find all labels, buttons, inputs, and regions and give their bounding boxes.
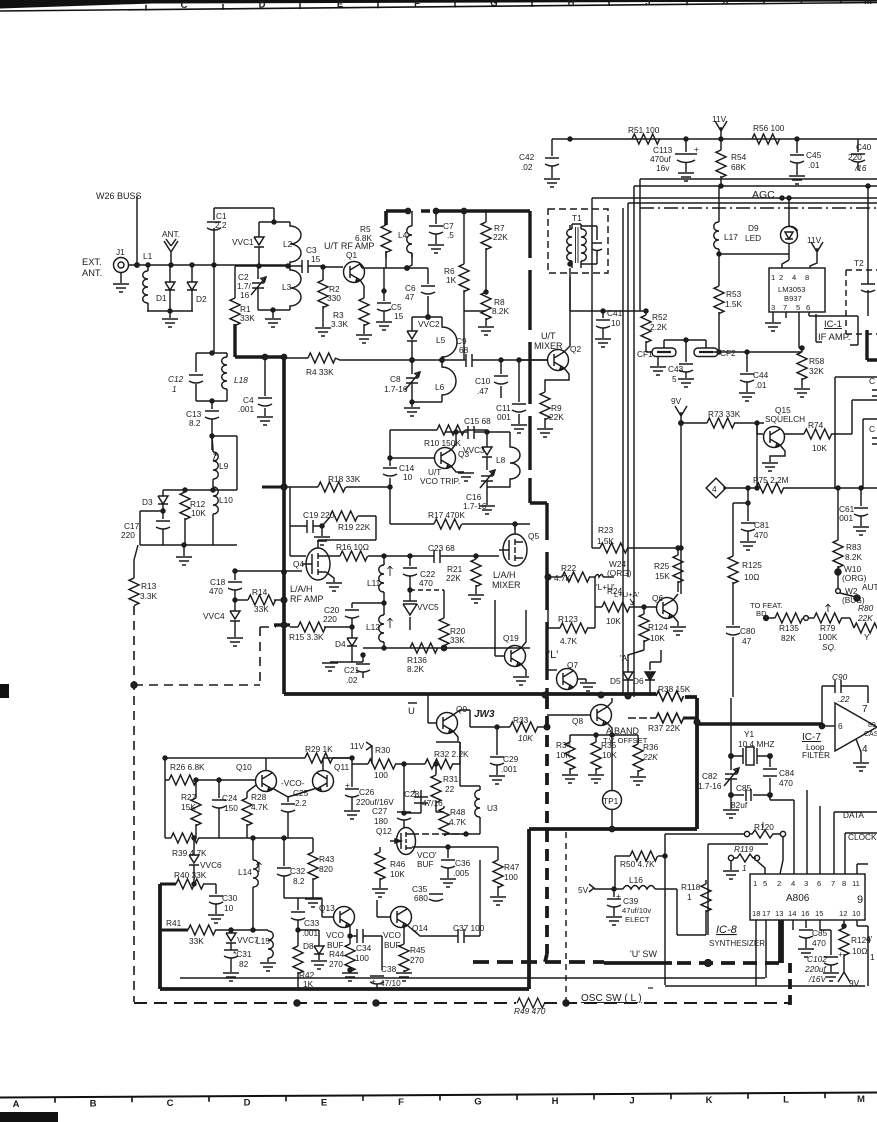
svg-text:A: A (13, 1099, 20, 1110)
svg-text:C12: C12 (168, 374, 184, 384)
svg-text:22K: 22K (642, 752, 658, 762)
svg-text:SQ.: SQ. (822, 642, 836, 652)
svg-text:4.7K: 4.7K (560, 636, 578, 646)
svg-text:C34: C34 (356, 943, 372, 953)
svg-text:R49 470: R49 470 (514, 1006, 546, 1016)
svg-text:D3: D3 (142, 497, 153, 507)
svg-text:33K: 33K (240, 313, 255, 323)
resistor R42 (299, 970, 315, 989)
svg-text:R47: R47 (504, 862, 520, 872)
svg-text:LM3053: LM3053 (778, 285, 805, 294)
svg-text:270: 270 (410, 955, 424, 965)
svg-text:220: 220 (121, 530, 135, 540)
ground C61 (853, 527, 869, 535)
label L/A/H RF AMP (290, 584, 324, 604)
top ruler band (0, 0, 152, 9)
svg-text:H: H (568, 0, 575, 9)
ground R3 (356, 335, 372, 343)
svg-text:BUF: BUF (384, 940, 401, 950)
wire synth bus vertical (665, 834, 744, 985)
svg-text:47: 47 (405, 292, 415, 302)
svg-text:10K: 10K (650, 633, 665, 643)
thick band bus (160, 694, 697, 989)
resistor R31 (443, 774, 459, 794)
svg-text:M: M (864, 0, 872, 7)
ground C81 (740, 542, 756, 550)
svg-text:C30: C30 (222, 893, 238, 903)
svg-text:8: 8 (805, 273, 809, 282)
svg-text:470: 470 (812, 938, 826, 948)
svg-text:B: B (90, 1099, 97, 1110)
svg-text:JW3: JW3 (474, 709, 495, 720)
resistor R80 (857, 603, 874, 623)
svg-text:R32 2.2K: R32 2.2K (434, 749, 469, 759)
svg-text:+: + (412, 786, 417, 796)
svg-text:R124: R124 (648, 622, 668, 632)
capacitor C3 (306, 245, 321, 264)
ground C16 (479, 506, 495, 514)
jumper W10 (842, 564, 867, 583)
capacitor C22 (419, 569, 436, 588)
svg-text:22: 22 (445, 784, 455, 794)
capacitor C10 (475, 376, 491, 396)
svg-text:1: 1 (753, 879, 757, 888)
svg-text:R58: R58 (809, 356, 825, 366)
svg-text:10K: 10K (812, 443, 827, 453)
svg-text:LED: LED (745, 233, 761, 243)
svg-text:R52: R52 (652, 312, 668, 322)
resistor R58 (809, 356, 825, 376)
svg-text:EXT.: EXT. (82, 257, 102, 267)
resistor R35 (601, 740, 617, 760)
svg-text:D4: D4 (335, 639, 346, 649)
capacitor C40 (848, 142, 872, 173)
resistor R54 (731, 152, 747, 172)
capacitor C42 (519, 152, 535, 172)
svg-text:L9: L9 (219, 461, 229, 471)
resistor R14 (252, 587, 269, 614)
svg-text:R43: R43 (319, 854, 335, 864)
wire Q19 collector (521, 610, 526, 648)
svg-text:L10: L10 (219, 495, 233, 505)
capacitor C35 (412, 884, 428, 903)
svg-text:R16 10Ω: R16 10Ω (336, 542, 369, 552)
capacitor C21 (344, 665, 360, 685)
IC A806 (750, 874, 865, 920)
svg-text:10K: 10K (518, 733, 533, 743)
svg-text:15K: 15K (655, 571, 670, 581)
svg-text:.02: .02 (346, 675, 358, 685)
ground C113 (678, 173, 694, 181)
svg-text:.001: .001 (837, 513, 854, 523)
svg-text:.001: .001 (238, 404, 255, 414)
svg-text:'L': 'L' (548, 649, 558, 661)
svg-text:10.4 MHZ: 10.4 MHZ (738, 739, 774, 749)
wire 9V bus down (680, 548, 682, 594)
wire IF bus verticals (622, 208, 624, 694)
svg-text:MIXER: MIXER (492, 580, 521, 590)
svg-text:680: 680 (414, 893, 428, 903)
jumper W24 (607, 559, 632, 578)
thick bus vertical x284 (282, 357, 286, 694)
wire antenna bus (129, 264, 290, 266)
svg-text:5: 5 (763, 879, 767, 888)
svg-text:Q2: Q2 (570, 344, 581, 354)
wire T1 secondary down (570, 268, 646, 311)
svg-text:4: 4 (862, 744, 868, 755)
svg-text:R83: R83 (846, 542, 862, 552)
svg-text:Y1: Y1 (744, 729, 755, 739)
capacitor C20 (323, 605, 340, 624)
svg-text:8.2: 8.2 (189, 418, 201, 428)
svg-text:D5: D5 (610, 676, 621, 686)
corner registration block (0, 1112, 58, 1122)
wire Q9 emitter (453, 731, 458, 741)
wire Q3 collector (451, 432, 456, 450)
svg-text:1: 1 (687, 892, 692, 902)
svg-text:15: 15 (394, 311, 404, 321)
svg-text:8.2K: 8.2K (845, 552, 863, 562)
resistor R5 (355, 224, 373, 243)
svg-text:10: 10 (403, 472, 413, 482)
svg-text:3: 3 (771, 303, 775, 312)
svg-text:ANT.: ANT. (82, 268, 102, 278)
ground C7 (428, 245, 444, 253)
left edge mark (0, 684, 9, 698)
svg-text:CAS: CAS (864, 731, 877, 738)
wire tank bottom rail (412, 402, 442, 407)
capacitor C9 (456, 336, 469, 355)
svg-text:R135: R135 (779, 623, 799, 633)
resistor R24 (606, 586, 623, 626)
svg-text:L/A/H: L/A/H (290, 584, 313, 594)
thick stub to bus (274, 623, 290, 626)
svg-text:8.2: 8.2 (293, 876, 305, 886)
capacitor C31 (233, 949, 252, 969)
svg-text:11V: 11V (712, 114, 727, 124)
svg-text:Q12: Q12 (376, 826, 392, 836)
svg-text:R119: R119 (734, 844, 754, 854)
svg-text:J: J (645, 0, 650, 8)
svg-text:470: 470 (754, 530, 768, 540)
ground C5 (376, 322, 392, 330)
svg-text:6: 6 (806, 303, 810, 312)
resistor R25 (654, 561, 670, 581)
thick top rail (386, 211, 530, 225)
svg-text:C: C (181, 0, 188, 11)
wire D3 left to R13 (134, 511, 163, 578)
svg-text:10: 10 (224, 903, 234, 913)
wire pin3 (806, 790, 808, 874)
svg-text:L6: L6 (435, 382, 445, 392)
svg-text:7: 7 (862, 704, 868, 715)
capacitor C27 (372, 806, 388, 826)
capacitor T1 tuning (581, 226, 597, 264)
IC-8 box partial (708, 844, 768, 935)
wire Q5 drain (514, 524, 516, 534)
resistor R47 (504, 862, 520, 882)
resistor R12 (190, 499, 206, 518)
svg-text:RF AMP: RF AMP (290, 594, 324, 604)
svg-text:R40 33K: R40 33K (174, 870, 207, 880)
svg-text:R80: R80 (858, 603, 874, 613)
svg-text:180: 180 (374, 816, 388, 826)
capacitor C11 (496, 403, 511, 422)
capacitor C8 variable (384, 374, 408, 394)
svg-text:TP1: TP1 (603, 796, 619, 806)
svg-text:L/A/H: L/A/H (493, 570, 516, 580)
svg-text:15: 15 (815, 909, 823, 918)
wire Q4 gate1 (235, 570, 302, 572)
svg-text:FILTER: FILTER (802, 750, 830, 760)
dashed boundary left (134, 606, 276, 1002)
svg-text:'A': 'A' (620, 653, 629, 663)
svg-text:VVC1: VVC1 (232, 237, 254, 247)
svg-text:L: L (783, 1095, 789, 1106)
svg-text:ANT.: ANT. (162, 229, 180, 239)
svg-text:Q6: Q6 (652, 593, 663, 603)
svg-text:8.2K: 8.2K (492, 306, 510, 316)
resistor R6 (444, 266, 457, 285)
svg-text:9: 9 (857, 894, 863, 906)
svg-text:8.2K: 8.2K (407, 664, 425, 674)
svg-text:820: 820 (319, 864, 333, 874)
capacitor C36 (453, 858, 471, 878)
svg-text:L16: L16 (629, 875, 643, 885)
svg-text:1.7-16: 1.7-16 (384, 384, 408, 394)
wire Q2 emitter to R9 (545, 368, 569, 392)
ground Q4 (326, 572, 334, 582)
wire VCO emitters (272, 788, 317, 800)
resistor R44 (329, 949, 345, 969)
svg-text:4: 4 (791, 879, 795, 888)
label U/T VCO TRIP. (420, 467, 460, 486)
svg-text:10K: 10K (606, 616, 621, 626)
capacitor C16 variable (463, 492, 487, 511)
svg-text:R48: R48 (450, 807, 466, 817)
svg-text:.01: .01 (808, 160, 820, 170)
svg-text:R36: R36 (643, 742, 659, 752)
wire pin10 (857, 920, 868, 986)
ground R2 (315, 328, 331, 336)
svg-text:1: 1 (172, 384, 177, 394)
svg-text:BUF: BUF (417, 859, 434, 869)
svg-text:C85: C85 (736, 783, 752, 793)
resistor R83 (845, 542, 863, 562)
svg-text:6: 6 (817, 879, 821, 888)
svg-text:VCO: VCO (383, 930, 402, 940)
capacitor C7 (443, 221, 454, 240)
ground C19 (321, 526, 323, 536)
label VCO BUF Q14 (383, 930, 402, 950)
svg-text:3: 3 (804, 879, 808, 888)
svg-text:17: 17 (762, 909, 770, 918)
wire CF coupling (664, 340, 706, 358)
svg-text:A806: A806 (786, 893, 810, 904)
thick boundary right of mixer (530, 211, 547, 697)
svg-text:Y: Y (864, 632, 870, 642)
resistor R48 (449, 807, 467, 827)
resistor R45 (410, 945, 426, 965)
jumper W2 (842, 586, 865, 605)
thick box right edge (867, 330, 877, 360)
svg-text:5V: 5V (578, 885, 589, 895)
thick pin13 (778, 920, 782, 963)
wire box bottom rail (140, 544, 237, 546)
svg-text:6.8K: 6.8K (355, 233, 373, 243)
ground Q7 (577, 679, 586, 682)
label TO FEAT BD (750, 601, 783, 618)
svg-text:D6: D6 (633, 676, 644, 686)
svg-text:D: D (244, 1098, 251, 1109)
wire Q4 top feedback (290, 540, 376, 556)
svg-text:47uf/10v: 47uf/10v (622, 906, 651, 915)
svg-text:10K: 10K (191, 508, 206, 518)
label U/T MIXER (534, 331, 563, 351)
resistor R123 (558, 614, 578, 646)
ground VVC4 (227, 638, 243, 646)
opamp IC-7 (835, 703, 877, 751)
svg-text:33K: 33K (450, 635, 465, 645)
ground Q19 (521, 664, 526, 676)
svg-text:47: 47 (742, 636, 752, 646)
svg-text:VVC5: VVC5 (417, 602, 439, 612)
capacitor C1 (215, 211, 227, 230)
wire L12 bottom rail (363, 647, 530, 649)
ground IC1 pin3 (772, 312, 774, 322)
resistor R3 (331, 310, 349, 329)
svg-text:10K: 10K (390, 869, 405, 879)
capacitor C4 (238, 395, 255, 414)
svg-text:AGC: AGC (752, 189, 775, 201)
svg-text:.005: .005 (453, 868, 470, 878)
svg-text:C44: C44 (753, 370, 769, 380)
svg-text:10: 10 (611, 318, 621, 328)
wire mid rail (235, 265, 290, 267)
capacitor C30 (222, 893, 238, 913)
svg-text:C43: C43 (668, 364, 684, 374)
wire Q1 collector node to L4 (362, 251, 412, 268)
pot R79 (818, 623, 838, 652)
wire pin11 (857, 864, 868, 874)
svg-text:11V: 11V (807, 235, 822, 245)
capacitor C34 (355, 943, 372, 963)
resistor R118 (681, 882, 701, 902)
svg-text:CF2: CF2 (720, 348, 736, 358)
wire C13 to L9 box (212, 436, 237, 490)
capacitor C82 variable (698, 771, 722, 791)
wire C1 bottom (213, 240, 215, 353)
capacitor C5 (391, 302, 404, 321)
svg-text:3.3K: 3.3K (331, 319, 349, 329)
svg-text:.22: .22 (838, 694, 850, 704)
ground R58 (794, 389, 810, 397)
label IC-7 loop filter (802, 732, 830, 760)
svg-text:IC-8: IC-8 (716, 924, 738, 936)
svg-text:R34: R34 (556, 740, 572, 750)
ground C41 (595, 339, 611, 347)
resistor R13 (140, 581, 158, 601)
svg-text:001: 001 (497, 412, 511, 422)
svg-text:8: 8 (842, 879, 846, 888)
svg-text:2.2: 2.2 (295, 798, 307, 808)
capacitor C28 (404, 786, 443, 808)
wire pin6 (819, 806, 821, 874)
thick wire to opamp (697, 722, 822, 726)
svg-text:1K: 1K (303, 979, 314, 989)
svg-text:6: 6 (838, 721, 843, 731)
capacitor C81 (754, 520, 770, 540)
svg-text:5: 5 (672, 374, 677, 384)
svg-text:R28: R28 (251, 792, 267, 802)
capacitor C85 470 (812, 928, 828, 948)
capacitor C17 (121, 521, 140, 540)
svg-text:4.7K: 4.7K (449, 817, 467, 827)
svg-text:K: K (706, 1095, 713, 1106)
transistor Q15 squelch (765, 405, 805, 424)
capacitor C43 (668, 364, 684, 384)
svg-text:F: F (414, 0, 420, 10)
wire R6 column (463, 311, 465, 360)
svg-text:100: 100 (355, 953, 369, 963)
svg-text:10Ω: 10Ω (852, 946, 867, 956)
svg-text:16: 16 (240, 290, 250, 300)
resistor R36 (642, 742, 659, 762)
ground C43 (678, 379, 694, 387)
svg-text:AUTO: AUTO (862, 582, 877, 592)
wire CF2 out (726, 351, 802, 353)
wire VVC1 top rail (259, 221, 290, 223)
svg-text:16: 16 (801, 909, 809, 918)
svg-text:R53: R53 (726, 289, 742, 299)
svg-text:C: C (167, 1098, 174, 1109)
svg-text:12: 12 (839, 909, 847, 918)
svg-text:220: 220 (323, 614, 337, 624)
svg-text:K: K (723, 0, 730, 8)
svg-text:C29: C29 (503, 754, 519, 764)
svg-text:R30: R30 (375, 745, 391, 755)
wire W26 buss vertical (136, 196, 138, 265)
svg-text:89: 89 (868, 722, 876, 729)
svg-text:C10: C10 (475, 376, 491, 386)
svg-text:M: M (857, 1094, 865, 1105)
thin dashed col (565, 832, 567, 1003)
svg-text:R125: R125 (742, 560, 762, 570)
svg-text:C39: C39 (623, 896, 639, 906)
capacitor C61 (837, 504, 855, 523)
svg-text:10Ω: 10Ω (744, 572, 759, 582)
svg-text:R31: R31 (443, 774, 459, 784)
svg-text:R45: R45 (410, 945, 426, 955)
svg-text:R73 33K: R73 33K (708, 409, 741, 419)
svg-text:C23 68: C23 68 (428, 543, 455, 553)
wire C14 node (389, 487, 391, 524)
svg-text:R23: R23 (598, 525, 614, 535)
capacitor C32 (290, 866, 306, 886)
label VCO BUF Q13 (326, 930, 345, 950)
svg-text:J: J (629, 1096, 634, 1107)
svg-text:R27: R27 (181, 792, 197, 802)
label EXT. ANT. (82, 257, 102, 278)
svg-text:+: + (694, 144, 699, 154)
ground C44 (739, 393, 755, 401)
svg-text:Q5: Q5 (528, 531, 539, 541)
svg-text:SYNTHESIZER: SYNTHESIZER (709, 939, 765, 948)
capacitor C102 (804, 949, 843, 984)
capacitor C33 (302, 918, 320, 938)
ground IC-7 (856, 739, 861, 762)
cut labels right edge (869, 376, 875, 434)
